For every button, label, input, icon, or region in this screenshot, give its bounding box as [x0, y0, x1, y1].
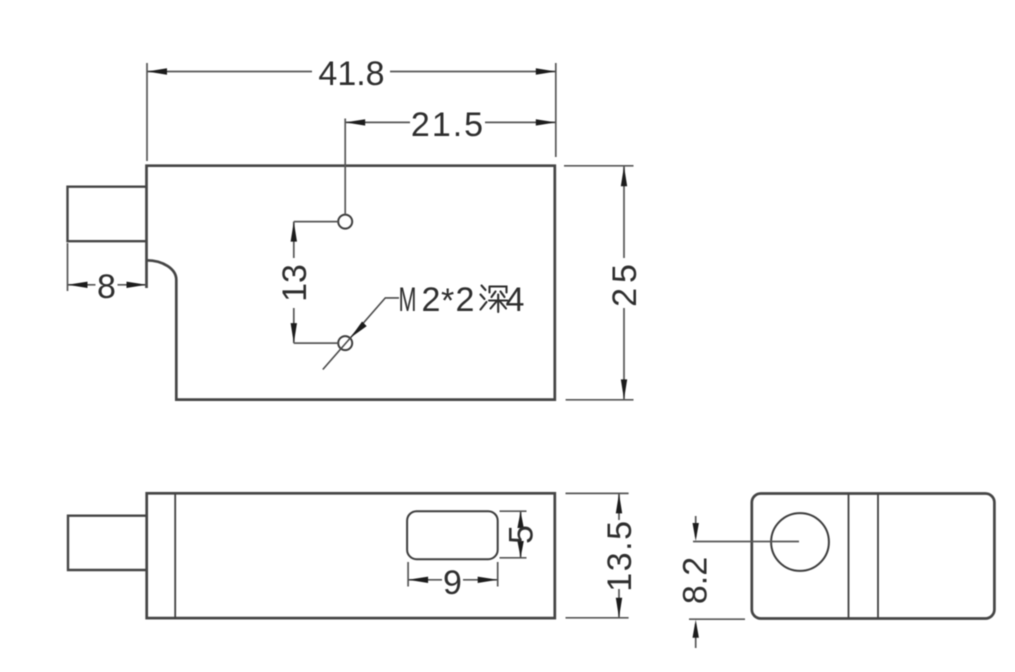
side view step line 2	[877, 494, 879, 619]
svg-text:25: 25	[606, 259, 644, 307]
dimension 21.5	[345, 119, 556, 215]
leader line M2 tapped hole	[323, 298, 399, 370]
svg-text:41.8: 41.8	[318, 55, 384, 93]
front view step line	[174, 493, 176, 618]
dimension 8.2	[689, 516, 799, 648]
side view cable hole	[771, 513, 829, 571]
dimension 5	[500, 511, 527, 558]
top view body outline	[147, 166, 555, 400]
top view connector boss	[68, 187, 147, 242]
dimension 13	[294, 222, 338, 344]
svg-text:9: 9	[443, 564, 462, 602]
top view tapped hole M2	[338, 336, 352, 350]
svg-text:13: 13	[276, 264, 314, 302]
callout text M2*2 deep 4	[399, 281, 525, 320]
front view body	[147, 493, 555, 618]
hanzi "shen" (depth) drawn as strokes	[481, 286, 508, 313]
svg-text:2: 2	[422, 281, 441, 319]
svg-text:13.5: 13.5	[601, 520, 639, 592]
dimension 8	[68, 243, 147, 291]
front view connector boss	[68, 516, 147, 570]
side view step line 1	[848, 494, 850, 619]
svg-text:5: 5	[503, 525, 541, 544]
dimension 13.5	[566, 493, 629, 617]
top view pilot hole	[338, 215, 352, 229]
dimension 41.8	[147, 63, 556, 161]
dimension 25	[564, 166, 634, 400]
dimension 9	[408, 562, 498, 587]
svg-text:*: *	[441, 282, 454, 320]
side view body	[752, 494, 995, 619]
svg-text:2: 2	[456, 281, 475, 319]
front view slot window	[407, 511, 498, 559]
svg-text:8.2: 8.2	[677, 557, 715, 604]
svg-text:21.5: 21.5	[411, 106, 485, 144]
svg-text:M: M	[399, 281, 417, 319]
svg-text:8: 8	[97, 268, 116, 306]
